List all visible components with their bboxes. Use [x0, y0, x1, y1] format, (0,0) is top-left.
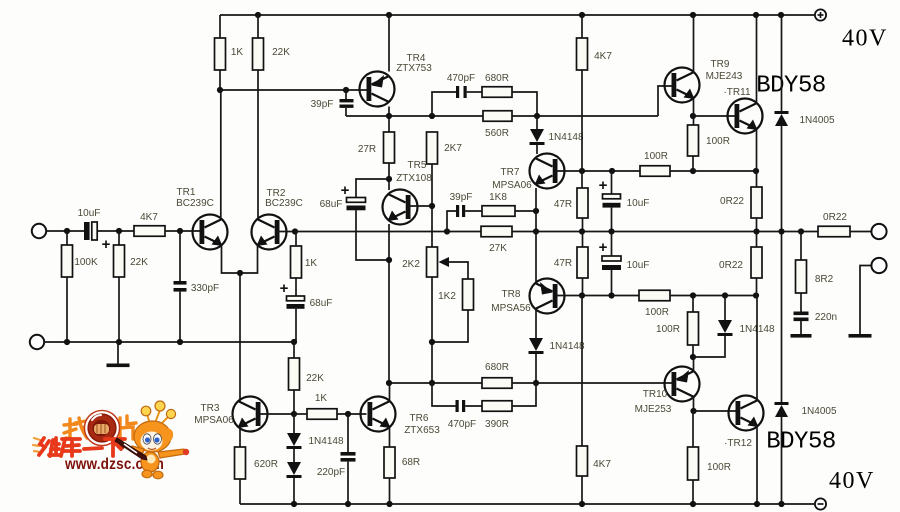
svg-text:1K: 1K: [305, 258, 318, 269]
transistor TR12: [729, 396, 764, 431]
wire 2K7 to pot: [431, 164, 433, 247]
wiper arrow: [439, 257, 469, 279]
junction tail node: [237, 270, 243, 276]
label + polarity: [599, 239, 608, 256]
wire TR1 emitter: [222, 245, 258, 273]
wire TR11 base: [693, 115, 735, 117]
label 2K7: [444, 143, 462, 154]
svg-text:+: +: [599, 239, 608, 256]
svg-text:BC239C: BC239C: [176, 198, 214, 209]
svg-text:ZTX108: ZTX108: [396, 173, 432, 184]
junction: [386, 113, 392, 119]
wire 680R to node: [512, 92, 537, 116]
svg-text:40V: 40V: [842, 26, 888, 52]
svg-text:68uF: 68uF: [320, 199, 343, 210]
label 560R: [485, 128, 509, 139]
wire 1N4005 column upper: [781, 15, 783, 111]
junction: [386, 380, 392, 386]
junction: [608, 228, 614, 234]
node top rail junction at 1K: [219, 15, 221, 38]
diode 1N4148 TR10: [693, 296, 733, 358]
svg-text:330pF: 330pF: [191, 283, 219, 294]
label TR6: [410, 413, 429, 424]
label 680R: [485, 362, 509, 373]
wire TR12 base: [694, 410, 736, 412]
label 40V positive: [842, 26, 888, 52]
label 390R: [485, 419, 509, 430]
label MPSA06: [492, 180, 532, 191]
wire TR7 emitter: [535, 188, 537, 231]
label TR4: [407, 53, 426, 64]
junction: [608, 292, 614, 298]
terminal +40V: [815, 9, 826, 20]
wire 22K to TR2 collector: [257, 70, 259, 218]
svg-text:680R: 680R: [485, 362, 509, 373]
label TR2: [267, 188, 286, 199]
label 1N4148: [548, 132, 583, 143]
label 4K7: [594, 51, 612, 62]
svg-text:22K: 22K: [272, 47, 290, 58]
junction: [753, 12, 759, 18]
transistor TR5: [383, 190, 418, 225]
wire -40V bottom supply rail: [240, 503, 814, 505]
resistor 680R lower: [482, 378, 512, 389]
label ZTX653: [404, 425, 440, 436]
label 47R: [554, 199, 572, 210]
svg-text:1N4148: 1N4148: [308, 436, 343, 447]
svg-text:TR7: TR7: [501, 167, 520, 178]
label 10uF: [78, 208, 101, 219]
label TR9: [711, 59, 730, 70]
svg-text:10uF: 10uF: [627, 198, 650, 209]
wire TR3 emitter: [239, 427, 241, 447]
wire 1K2 bottom: [432, 310, 468, 342]
wire 470pF to 390R: [465, 405, 482, 407]
junction: [690, 501, 696, 507]
resistor 22K tail: [289, 342, 300, 414]
label 100R: [644, 151, 668, 162]
svg-text:0R22: 0R22: [720, 196, 744, 207]
label 27R: [358, 144, 376, 155]
svg-text:2K7: 2K7: [444, 143, 462, 154]
capacitor 68uF TR5: [347, 198, 366, 211]
resistor 68R: [384, 447, 395, 504]
svg-text:390R: 390R: [485, 419, 509, 430]
label 100R: [707, 462, 731, 473]
resistor 0R22 output: [818, 226, 850, 237]
label BDY58 lower: [766, 429, 836, 456]
svg-text:620R: 620R: [254, 459, 278, 470]
label *TR12: [724, 438, 752, 449]
label TR5: [408, 160, 427, 171]
junction: [778, 501, 784, 507]
svg-text:68R: 68R: [402, 457, 420, 468]
junction: [753, 168, 759, 174]
diode 1N4005 upper: [775, 111, 789, 126]
label 100R: [706, 136, 730, 147]
junction: [778, 12, 784, 18]
wire TR2 base to feedback node: [278, 231, 296, 233]
capacitor 220n zobel: [794, 293, 809, 334]
capacitor 39pF TR4: [340, 90, 354, 116]
label 47R: [554, 258, 572, 269]
wire TR12 emitter: [756, 426, 758, 504]
junction: [291, 411, 297, 417]
junction: [291, 501, 297, 507]
label ZTX753: [396, 63, 432, 74]
junction: [386, 176, 392, 182]
transistor TR8: [530, 279, 565, 314]
svg-text:1N4005: 1N4005: [801, 406, 836, 417]
svg-text:TR5: TR5: [408, 160, 427, 171]
label TR8: [502, 289, 521, 300]
resistor 47R lower: [577, 231, 588, 295]
junction: [429, 339, 435, 345]
label 100R: [645, 307, 669, 318]
label MPSA56: [491, 303, 531, 314]
wire TR4 collector: [388, 107, 390, 133]
junction: [579, 228, 585, 234]
svg-text:10uF: 10uF: [78, 208, 101, 219]
ground speaker: [849, 334, 872, 338]
capacitor 68uF feedback: [287, 278, 305, 342]
wire 470pF branch: [432, 92, 456, 116]
svg-text:MPSA06: MPSA06: [492, 180, 532, 191]
capacitor 39pF mid: [447, 205, 465, 232]
wire 1K8 to TR7 emitter: [515, 210, 536, 212]
junction: [798, 228, 804, 234]
resistor 8R2 zobel: [796, 232, 807, 294]
transistor TR3: [233, 397, 268, 432]
label 0R22: [720, 196, 744, 207]
svg-text:1K: 1K: [231, 47, 244, 58]
diode 1N4005 lower: [775, 402, 789, 417]
junction: [690, 12, 696, 18]
wire TR9 collector: [693, 15, 695, 72]
svg-text:1N4148: 1N4148: [548, 132, 583, 143]
resistor 1K8: [482, 206, 515, 217]
resistor 620R: [235, 447, 246, 504]
resistor 4K7 lower: [577, 295, 588, 504]
transistor TR4: [360, 72, 395, 107]
svg-text:100K: 100K: [74, 257, 98, 268]
svg-text:47R: 47R: [554, 199, 572, 210]
resistor 1K feedback: [291, 231, 302, 278]
resistor 100R TR9 emitter: [688, 125, 699, 171]
diode 1N4148 bias b: [287, 449, 302, 504]
svg-text:TR3: TR3: [201, 403, 220, 414]
resistor 100R bottom: [688, 411, 699, 504]
svg-text:47R: 47R: [554, 258, 572, 269]
junction: [753, 292, 759, 298]
wire TR5 emitter column: [388, 224, 390, 383]
junction: [722, 292, 728, 298]
resistor 100R TR10: [688, 312, 699, 357]
label 620R: [254, 459, 278, 470]
label 68R: [402, 457, 420, 468]
label 470pF: [447, 73, 475, 84]
junction: [754, 501, 760, 507]
svg-text:MPSA06: MPSA06: [194, 415, 234, 426]
junction: [690, 354, 696, 360]
capacitor 10uF input: [84, 222, 97, 240]
wire TR5 base: [408, 205, 432, 207]
wire 1N4005 column mid: [781, 126, 783, 402]
wire 100R to TR9 emitter node: [670, 170, 756, 172]
wire 0R22 to output: [850, 231, 871, 233]
svg-text:BDY58: BDY58: [766, 429, 836, 456]
junction: [690, 292, 696, 298]
label 1N4148: [549, 341, 584, 352]
svg-text:100R: 100R: [645, 307, 669, 318]
diode 1N4148 bias a: [287, 414, 302, 449]
junction: [753, 228, 759, 234]
junction: [429, 203, 435, 209]
wire TR4 emitter to rail: [388, 15, 390, 72]
ground zobel: [791, 334, 812, 338]
svg-text:1K8: 1K8: [489, 192, 507, 203]
label BDY58 upper: [756, 73, 826, 100]
wire TR5 collector to 68uF: [356, 179, 389, 198]
label + polarity: [599, 177, 608, 194]
label 1K2: [438, 291, 456, 302]
wire 27K to TR8 node: [512, 231, 818, 233]
junction: [64, 228, 70, 234]
junction: [533, 208, 539, 214]
terminal output: [871, 224, 886, 239]
wire 470pF branch lower: [432, 383, 456, 406]
svg-text:680R: 680R: [485, 73, 509, 84]
wire 100R to TR10 node: [670, 295, 756, 297]
resistor 100R bias upper: [640, 166, 670, 177]
wire TR3 base: [259, 413, 294, 415]
junction: [690, 408, 696, 414]
capacitor 470pF upper: [456, 86, 467, 98]
label 4K7: [593, 459, 611, 470]
junction feedback node: [292, 228, 298, 234]
label ZTX108: [396, 173, 432, 184]
junction: [64, 339, 70, 345]
label 1K: [315, 393, 328, 404]
wire TR7 base: [556, 170, 640, 172]
wire TR9 emitter: [693, 98, 695, 125]
wire pot bottom: [431, 277, 433, 383]
svg-text:4K7: 4K7: [593, 459, 611, 470]
diode 1N4148 TR7: [530, 116, 545, 154]
label 100R: [656, 324, 680, 335]
label 220pF: [317, 467, 345, 478]
svg-text:1K2: 1K2: [438, 291, 456, 302]
label 470pF: [448, 419, 476, 430]
label 330pF: [191, 283, 219, 294]
label 1N4005: [799, 115, 834, 126]
junction: [177, 228, 183, 234]
wire TR12 collector: [756, 296, 758, 401]
ground: [107, 342, 130, 367]
svg-text:22K: 22K: [306, 373, 324, 384]
wire TR11 collector: [756, 15, 758, 103]
junction: [386, 257, 392, 263]
resistor 22K TR2 load: [253, 38, 264, 70]
junction: [429, 113, 435, 119]
label 10uF: [627, 260, 650, 271]
svg-text:TR9: TR9: [711, 59, 730, 70]
label 220n: [815, 312, 837, 323]
svg-text:BC239C: BC239C: [265, 198, 303, 209]
label TR10: [643, 389, 668, 400]
capacitor 330pF: [174, 231, 187, 342]
resistor 47R upper: [577, 171, 588, 231]
junction: [778, 228, 784, 234]
wire +40V top supply rail: [220, 14, 814, 16]
wire 100R TR10 top: [692, 296, 694, 313]
label + polarity: [280, 280, 289, 297]
terminal speaker return: [871, 258, 886, 273]
svg-text:8R2: 8R2: [815, 274, 834, 285]
wire 1N4005 column lower: [781, 417, 783, 504]
potentiometer 2K2: [427, 247, 438, 277]
junction: [533, 380, 539, 386]
svg-text:68uF: 68uF: [310, 298, 333, 309]
label *TR11: [723, 87, 750, 98]
svg-text:4K7: 4K7: [140, 212, 158, 223]
wire TR11 emitter: [756, 129, 758, 171]
svg-text:ZTX653: ZTX653: [404, 425, 440, 436]
label TR7: [501, 167, 520, 178]
resistor 0R22 lower: [751, 231, 762, 295]
junction: [255, 12, 261, 38]
svg-text:TR1: TR1: [177, 187, 196, 198]
wire TR10 collector: [693, 397, 695, 411]
svg-text:220n: 220n: [815, 312, 837, 323]
junction: [386, 12, 392, 18]
label 8R2: [815, 274, 834, 285]
svg-text:·TR11: ·TR11: [723, 87, 750, 98]
label + polarity: [102, 236, 111, 253]
svg-text:ZTX753: ZTX753: [396, 63, 432, 74]
svg-text:100R: 100R: [706, 136, 730, 147]
svg-text:27R: 27R: [358, 144, 376, 155]
label 0R22: [823, 212, 847, 223]
junction: [579, 12, 585, 18]
label 1K: [231, 47, 244, 58]
label 22K: [306, 373, 324, 384]
svg-text:1N4005: 1N4005: [799, 115, 834, 126]
watermark logo dzsc: [33, 401, 189, 479]
label 40V negative: [829, 468, 875, 494]
svg-text:+: +: [341, 182, 350, 199]
wire TR10 emitter: [693, 357, 695, 371]
junction: [690, 168, 696, 174]
svg-text:TR10: TR10: [643, 389, 668, 400]
wire tail to TR3 collector: [239, 273, 241, 401]
transistor TR9: [665, 68, 700, 103]
label 39pF: [450, 192, 473, 203]
svg-text:220pF: 220pF: [317, 467, 345, 478]
svg-text:TR6: TR6: [410, 413, 429, 424]
wire to TR9 base: [658, 86, 672, 116]
resistor 1K TR1 load: [215, 38, 226, 70]
svg-text:2K2: 2K2: [402, 259, 420, 270]
transistor TR6: [361, 397, 396, 432]
label MJE243: [706, 71, 743, 82]
label 1N4005: [801, 406, 836, 417]
label 10uF: [627, 198, 650, 209]
wire 39pF to 1K8: [465, 210, 482, 212]
terminal input signal: [32, 224, 46, 238]
label 27K: [489, 243, 507, 254]
transistor TR2: [252, 215, 287, 250]
svg-text:+: +: [280, 280, 289, 297]
svg-text:10uF: 10uF: [627, 260, 650, 271]
resistor 2K7: [427, 132, 438, 164]
label 1K: [305, 258, 318, 269]
terminal input ground: [30, 335, 44, 349]
junction: [609, 168, 615, 174]
label TR3: [201, 403, 220, 414]
diode 1N4148 TR8: [529, 309, 544, 383]
svg-text:560R: 560R: [485, 128, 509, 139]
resistor 27R: [384, 132, 395, 163]
svg-text:100R: 100R: [644, 151, 668, 162]
junction: [177, 339, 183, 345]
svg-text:MPSA56: MPSA56: [491, 303, 531, 314]
junction: [116, 339, 122, 345]
junction: [534, 113, 540, 119]
terminal -40V: [815, 498, 826, 509]
label 39pF: [311, 99, 334, 110]
junction: [343, 87, 349, 93]
capacitor 10uF lower: [602, 231, 621, 295]
resistor 100K: [62, 231, 73, 342]
label 680R: [485, 73, 509, 84]
resistor 560R: [483, 111, 512, 122]
svg-text:TR8: TR8: [502, 289, 521, 300]
wire 68uF bottom: [356, 210, 389, 260]
wire input to C1: [46, 230, 84, 232]
resistor 1K2: [463, 279, 474, 310]
resistor 1K TR6 base: [294, 409, 367, 420]
svg-text:40V: 40V: [829, 468, 875, 494]
svg-text:22K: 22K: [130, 257, 148, 268]
transistor TR1: [193, 215, 228, 250]
junction: [579, 168, 585, 174]
svg-text:100R: 100R: [656, 324, 680, 335]
svg-text:39pF: 39pF: [450, 192, 473, 203]
label 4K7: [140, 212, 158, 223]
wire main rail TR2 to 27K: [295, 231, 481, 233]
wire 1K to TR1 collector: [219, 70, 222, 218]
label 100K: [74, 257, 98, 268]
svg-text:MJE253: MJE253: [635, 404, 672, 415]
label BC239C: [265, 198, 303, 209]
junction: [429, 380, 435, 386]
svg-text:4K7: 4K7: [594, 51, 612, 62]
svg-text:39pF: 39pF: [311, 99, 334, 110]
resistor 390R: [482, 401, 512, 412]
wire node line y116: [346, 115, 658, 117]
svg-text:·TR12: ·TR12: [724, 438, 752, 449]
label 22K: [130, 257, 148, 268]
label 68uF: [320, 199, 343, 210]
label 1N4148: [308, 436, 343, 447]
label TR1: [177, 187, 196, 198]
wire 390R to node: [512, 383, 536, 406]
label BC239C: [176, 198, 214, 209]
resistor 22K input: [114, 231, 125, 342]
wire 680R to TR10 base: [512, 382, 672, 384]
junction: [579, 501, 585, 507]
